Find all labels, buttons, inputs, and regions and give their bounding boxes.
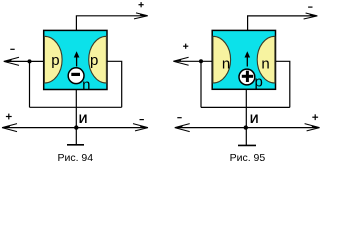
svg-text:И: И	[79, 112, 88, 126]
svg-text:p: p	[255, 73, 263, 90]
svg-text:Рис. 95: Рис. 95	[230, 152, 266, 164]
svg-text:p: p	[90, 52, 98, 69]
svg-text:n: n	[222, 55, 230, 72]
svg-text:n: n	[261, 55, 269, 72]
svg-text:p: p	[51, 52, 59, 69]
svg-text:n: n	[82, 77, 90, 94]
svg-text:И: И	[250, 112, 259, 126]
svg-text:Рис. 94: Рис. 94	[57, 152, 93, 164]
